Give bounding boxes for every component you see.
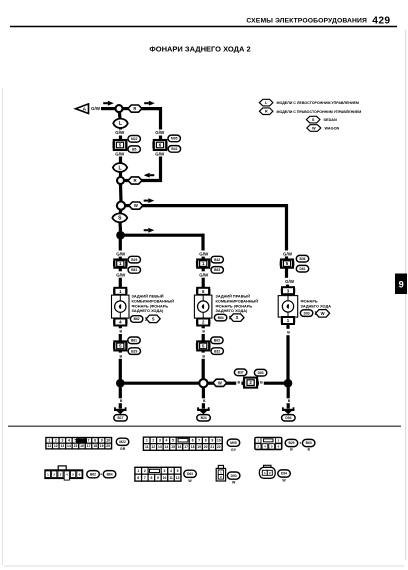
svg-text:7: 7 (144, 476, 146, 480)
svg-text:ФОНАРЬ (ФОНАРЬ: ФОНАРЬ (ФОНАРЬ (216, 304, 253, 308)
svg-text:A: A (83, 107, 87, 113)
svg-text:ЗАДНИЙ ПРАВЫЙ: ЗАДНИЙ ПРАВЫЙ (216, 294, 251, 298)
svg-text:429: 429 (372, 16, 390, 27)
svg-text:9: 9 (157, 476, 159, 480)
svg-text:21: 21 (210, 445, 214, 449)
svg-text:B64: B64 (107, 472, 113, 476)
svg-text:R: R (133, 106, 136, 111)
svg-text:9: 9 (211, 439, 213, 443)
svg-text:D61: D61 (299, 267, 305, 271)
svg-text:B17: B17 (117, 416, 123, 420)
svg-text:11: 11 (145, 445, 149, 449)
svg-text:B61: B61 (131, 339, 137, 343)
svg-text:19: 19 (100, 444, 104, 448)
svg-text:10: 10 (217, 439, 221, 443)
svg-text:W: W (312, 126, 316, 130)
svg-text:W: W (321, 311, 325, 316)
svg-text:G/W: G/W (283, 251, 293, 256)
svg-text:B32: B32 (214, 258, 220, 262)
svg-text:19: 19 (197, 445, 201, 449)
svg-text:8: 8 (205, 439, 207, 443)
svg-text:L: L (118, 165, 121, 171)
svg-text:13: 13 (61, 444, 65, 448)
svg-text:B24: B24 (201, 416, 207, 420)
svg-text:СХЕМЫ ЭЛЕКТРООБОРУДОВАНИЯ: СХЕМЫ ЭЛЕКТРООБОРУДОВАНИЯ (246, 18, 367, 25)
svg-text:2: 2 (55, 439, 57, 443)
svg-text:G/W: G/W (155, 130, 165, 135)
svg-text:ЗАДНЕГО ХОДА: ЗАДНЕГО ХОДА (301, 304, 332, 308)
svg-text:ЗАДНЕГО ХОДА): ЗАДНЕГО ХОДА) (216, 309, 249, 313)
svg-text:W: W (218, 380, 222, 385)
svg-text:D93: D93 (231, 474, 237, 478)
svg-text:15: 15 (171, 445, 175, 449)
svg-text:17: 17 (87, 444, 91, 448)
svg-text:МОДЕЛИ С ПРАВОСТОРОННИМ УПРАВЛ: МОДЕЛИ С ПРАВОСТОРОННИМ УПРАВЛЕНИЕМ (277, 110, 362, 114)
svg-text:M22: M22 (131, 137, 138, 141)
svg-text:B5: B5 (132, 147, 136, 151)
svg-text:ФОНАРЬ (ФОНАРЬ: ФОНАРЬ (ФОНАРЬ (132, 304, 169, 308)
svg-text:B29: B29 (131, 349, 137, 353)
svg-text:2: 2 (152, 439, 154, 443)
svg-text:L: L (119, 121, 122, 127)
svg-text:B61: B61 (131, 268, 137, 272)
svg-text:G/W: G/W (155, 151, 165, 156)
svg-text:9: 9 (101, 439, 103, 443)
svg-text:ЗАДНИЙ ЛЕВЫЙ: ЗАДНИЙ ЛЕВЫЙ (132, 294, 164, 298)
svg-text:1: 1 (48, 439, 50, 443)
svg-text:D94: D94 (281, 472, 287, 476)
svg-text:B: B (237, 381, 240, 385)
svg-text:G/W: G/W (91, 106, 101, 111)
svg-text:4: 4 (170, 469, 172, 473)
svg-text:D63: D63 (258, 371, 264, 375)
svg-text:W: W (134, 203, 138, 208)
svg-text:22: 22 (217, 445, 221, 449)
svg-text:S: S (236, 315, 239, 320)
svg-text:S: S (312, 118, 315, 122)
svg-text:7: 7 (88, 439, 90, 443)
svg-text:B62: B62 (134, 317, 140, 321)
svg-text:G/W: G/W (116, 252, 126, 257)
svg-text:10: 10 (163, 476, 167, 480)
svg-text:B: B (260, 381, 263, 385)
svg-text:14: 14 (165, 445, 169, 449)
svg-text:M95: M95 (171, 137, 178, 141)
svg-text:9: 9 (399, 280, 404, 290)
svg-text:18: 18 (191, 445, 195, 449)
svg-text:G/W: G/W (116, 273, 126, 278)
svg-text:13: 13 (158, 445, 162, 449)
svg-text:R: R (265, 110, 268, 114)
svg-text:1: 1 (137, 469, 139, 473)
svg-text:B29: B29 (131, 258, 137, 262)
svg-text:B29: B29 (288, 441, 294, 445)
svg-text:GY: GY (231, 448, 237, 452)
svg-text:GR: GR (120, 447, 126, 451)
svg-text:B64: B64 (218, 316, 224, 320)
svg-text:6: 6 (192, 439, 194, 443)
svg-text:G/W: G/W (285, 279, 295, 284)
svg-text:5: 5 (172, 439, 174, 443)
svg-text:S: S (152, 316, 155, 321)
svg-text:B63: B63 (214, 339, 220, 343)
svg-text:B36: B36 (299, 257, 305, 261)
svg-text:12: 12 (176, 476, 180, 480)
svg-text:12: 12 (54, 444, 58, 448)
svg-text:12: 12 (151, 445, 155, 449)
svg-text:B32: B32 (214, 349, 220, 353)
svg-text:B: B (119, 355, 122, 359)
svg-text:ЗАДНЕГО ХОДА): ЗАДНЕГО ХОДА) (132, 309, 165, 313)
svg-text:8: 8 (150, 476, 152, 480)
svg-text:D63: D63 (187, 472, 193, 476)
svg-text:SEDAN: SEDAN (324, 118, 338, 122)
svg-text:B: B (202, 355, 205, 359)
svg-text:4: 4 (68, 439, 70, 443)
svg-text:3: 3 (159, 439, 161, 443)
svg-text:14: 14 (67, 444, 71, 448)
svg-text:G/W: G/W (115, 151, 125, 156)
svg-text:10: 10 (106, 439, 110, 443)
svg-text:1: 1 (146, 439, 148, 443)
svg-text:8: 8 (94, 439, 96, 443)
svg-text:B: B (287, 331, 290, 335)
svg-text:3: 3 (164, 469, 166, 473)
svg-text:D94: D94 (285, 416, 291, 420)
svg-text:20: 20 (204, 445, 208, 449)
svg-text:КОМБИНИРОВАННЫЙ: КОМБИНИРОВАННЫЙ (132, 299, 175, 303)
svg-text:WAGON: WAGON (325, 127, 340, 131)
svg-text:D93: D93 (304, 311, 310, 315)
svg-text:M95: M95 (230, 441, 237, 445)
svg-text:B: B (119, 330, 122, 334)
svg-text:18: 18 (93, 444, 97, 448)
svg-text:B42: B42 (171, 147, 177, 151)
svg-text:4: 4 (165, 439, 167, 443)
svg-text:МОДЕЛИ С ЛЕВОСТОРОННИМ УПРАВЛЕ: МОДЕЛИ С ЛЕВОСТОРОННИМ УПРАВЛЕНИЕМ (277, 101, 359, 105)
svg-text:G/W: G/W (115, 130, 125, 135)
svg-text:11: 11 (169, 476, 173, 480)
svg-text:2: 2 (144, 469, 146, 473)
svg-text:ФОНАРЬ: ФОНАРЬ (301, 300, 318, 304)
svg-text:7: 7 (198, 439, 200, 443)
svg-text:B63: B63 (214, 268, 220, 272)
svg-text:G/W: G/W (199, 273, 209, 278)
svg-text:20: 20 (106, 444, 110, 448)
svg-text:17: 17 (184, 445, 188, 449)
svg-text:16: 16 (178, 445, 182, 449)
svg-text:B37: B37 (238, 371, 244, 375)
svg-text:6: 6 (137, 476, 139, 480)
svg-text:15: 15 (74, 444, 78, 448)
svg-text:11: 11 (48, 444, 52, 448)
svg-text:G/W: G/W (199, 252, 209, 257)
svg-text:КОМБИНИРОВАННЫЙ: КОМБИНИРОВАННЫЙ (216, 299, 259, 303)
svg-text:16: 16 (80, 444, 84, 448)
svg-text:R: R (133, 178, 136, 183)
svg-text:ФОНАРИ ЗАДНЕГО ХОДА 2: ФОНАРИ ЗАДНЕГО ХОДА 2 (149, 44, 250, 53)
svg-text:3: 3 (61, 439, 63, 443)
svg-text:5: 5 (177, 469, 179, 473)
svg-text:B62: B62 (90, 472, 96, 476)
svg-text:M22: M22 (119, 440, 126, 444)
svg-text:B: B (202, 330, 205, 334)
svg-text:B63: B63 (306, 441, 312, 445)
